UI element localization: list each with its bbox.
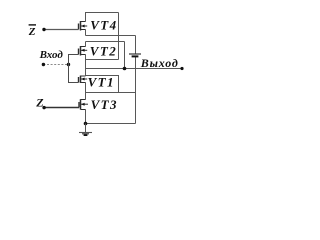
wire VT4/VT2 right edge vertical: [118, 13, 120, 60]
transistor VT1 (n-MOS, gate Vhod): [79, 76, 88, 84]
transistor VT4 (p-MOS, gate Z-bar): [79, 21, 88, 31]
wire output horizontal: [86, 68, 183, 70]
wire VT2 left edge down through output corner to VT1 top: [85, 42, 87, 76]
svg-text:Выход: Выход: [140, 56, 179, 70]
wire output tap from VT2 top edge down to output node: [124, 42, 126, 69]
battery GB power supply: [129, 54, 141, 56]
wire input dashed: [43, 64, 68, 66]
transistor VT3 (n-MOS, gate Z): [79, 99, 88, 109]
node Z-bar input terminal: [42, 28, 45, 31]
wire input junction to VT2 gate: [69, 55, 79, 65]
node ground junction: [84, 122, 88, 126]
ground symbol: [79, 124, 92, 136]
wire VT1 bottom edge extended to battery line: [86, 92, 136, 94]
svg-text:VT3: VT3: [91, 97, 118, 112]
wire battery top lead: [135, 36, 137, 54]
svg-text:VT4: VT4: [90, 17, 117, 32]
node input junction: [67, 63, 70, 66]
wire ground bottom rail: [86, 123, 136, 125]
node output junction: [123, 67, 127, 71]
svg-text:VT2: VT2: [90, 44, 117, 59]
wire +V rail to battery: [86, 35, 136, 37]
transistor VT4 envelope box: [86, 13, 119, 36]
transistor VT1 envelope box: [86, 76, 119, 93]
wire VT2 envelope top edge: [86, 41, 125, 43]
svg-text:VT1: VT1: [88, 75, 115, 90]
wire gate Z-bar to VT4: [44, 29, 79, 31]
wire VT2 envelope bottom edge: [86, 59, 119, 61]
svg-text:Вход: Вход: [39, 49, 64, 61]
transistor VT2 (p-MOS, gate Vhod): [79, 46, 88, 56]
svg-text:Z: Z: [28, 26, 36, 38]
wire input junction to VT1 gate: [69, 65, 79, 83]
node Z input terminal: [42, 106, 45, 109]
node output terminal: [180, 67, 183, 70]
node input terminal: [42, 63, 45, 66]
wire VT1/VT3 left chain down to ground junction: [85, 76, 87, 124]
wire battery bottom lead down to ground rail: [135, 57, 137, 124]
wire gate Z to VT3: [44, 107, 79, 109]
